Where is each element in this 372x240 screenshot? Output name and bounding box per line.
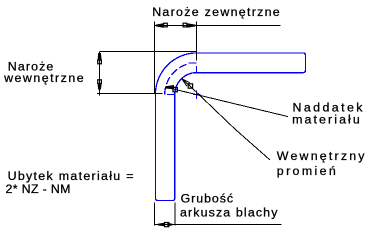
D1 right handle xyxy=(183,23,187,27)
dimension D3 (sheet thickness) xyxy=(155,203,282,226)
svg-text:wewnętrzne: wewnętrzne xyxy=(3,71,84,85)
vertical leg of sheet xyxy=(155,95,174,201)
bend tangent line (vertical, at horizontal leg) xyxy=(196,66,198,72)
D2 bottom arrow xyxy=(98,84,102,90)
svg-text:materiału: materiału xyxy=(292,113,360,127)
D3 left arrow xyxy=(158,223,164,227)
top extension line xyxy=(100,51,197,53)
D2 top arrow xyxy=(98,53,102,60)
neutral axis end dash xyxy=(189,62,197,64)
neutral (middle) dashed arc xyxy=(165,64,189,95)
left extension line xyxy=(154,203,156,226)
right extension line xyxy=(195,22,197,61)
inner bend arc xyxy=(175,73,197,95)
svg-text:promień: promień xyxy=(277,164,336,178)
svg-text:arkusza blachy: arkusza blachy xyxy=(180,206,278,220)
bend center cross xyxy=(193,90,201,99)
part outline: bent sheet, vertical leg xyxy=(155,53,305,201)
svg-text:Naroże zewnętrzne: Naroże zewnętrzne xyxy=(152,5,280,19)
D1 right arrow xyxy=(187,23,195,27)
dim line / text underline xyxy=(155,224,282,226)
dim line xyxy=(99,52,101,96)
horizontal leg of sheet xyxy=(197,53,306,73)
D2 top handle xyxy=(98,60,102,64)
svg-text:Grubość: Grubość xyxy=(181,192,234,206)
svg-text:Wewnętrzny: Wewnętrzny xyxy=(277,149,365,163)
L2 handle xyxy=(188,84,192,88)
L1 arrow xyxy=(166,85,174,89)
L1 handle xyxy=(173,87,177,91)
D2 bottom handle xyxy=(98,80,102,84)
L2 open arrowhead xyxy=(182,79,190,87)
dimension D1 (Naroże zewnętrzne) xyxy=(154,22,281,94)
right extension line xyxy=(174,203,176,226)
D1 left handle xyxy=(164,23,168,27)
svg-text:Ubytek materiału =: Ubytek materiału = xyxy=(8,169,134,183)
leader L2 to Wewnetrzny promien xyxy=(182,79,270,160)
left extension line xyxy=(154,22,156,94)
outer bend arc xyxy=(155,53,196,95)
D3 right arrow xyxy=(167,223,172,227)
dimension D2 (Naroże wewnętrzne) xyxy=(97,52,196,96)
bottom extension line (with gap at bend dash) xyxy=(97,93,163,95)
D1 left arrow xyxy=(156,23,164,27)
dim line xyxy=(154,25,281,27)
leader L1 to Naddatek materialu xyxy=(165,87,288,117)
D3 handle xyxy=(165,223,169,227)
svg-text:2* NZ - NM: 2* NZ - NM xyxy=(6,182,71,196)
bend tangent line (horizontal, at vertical leg) xyxy=(167,93,175,95)
